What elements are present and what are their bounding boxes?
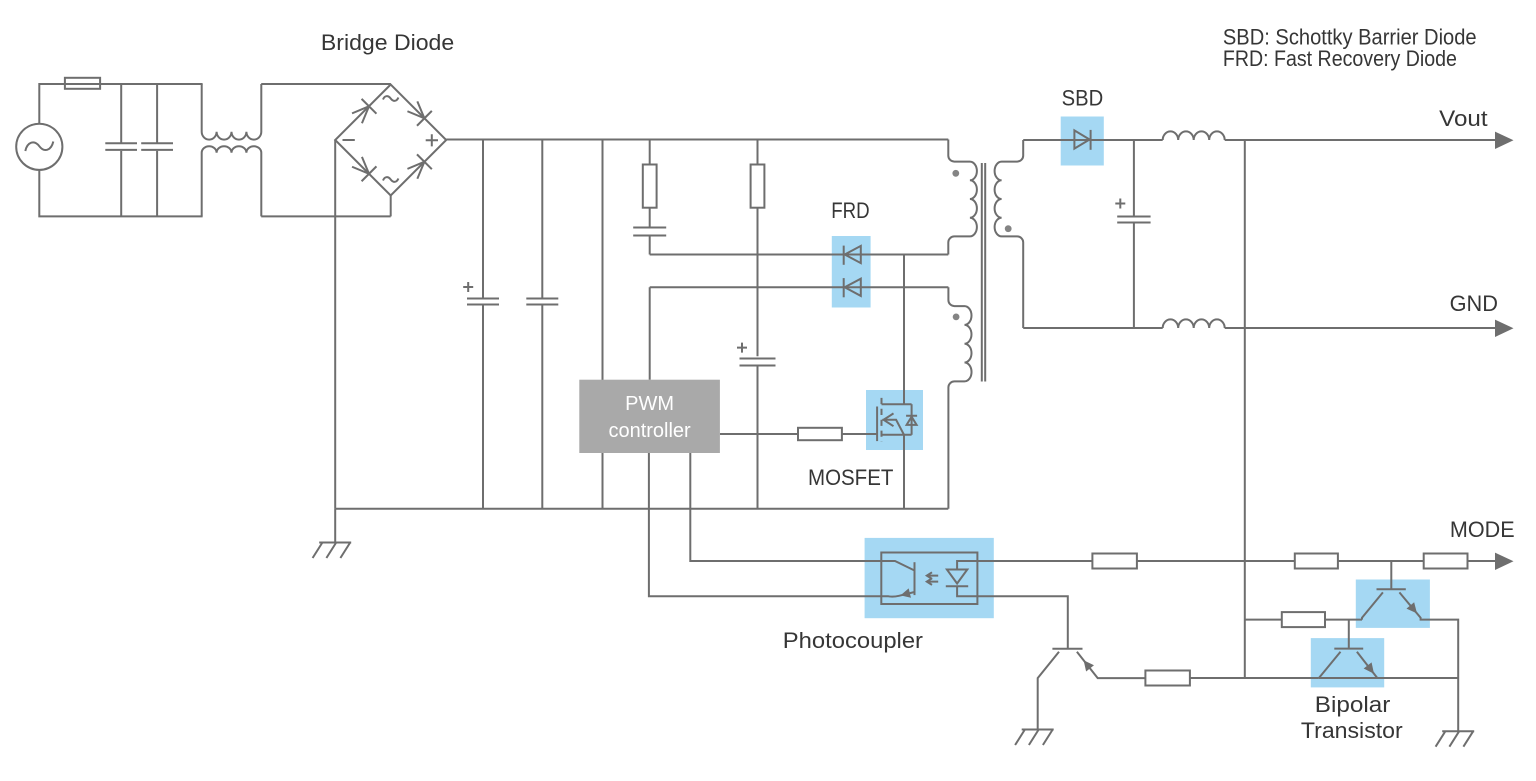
wire aux rail horizontal [650,286,949,288]
wire choke to bridge top [261,83,391,85]
wire MODE line from photocoupler [977,560,1092,562]
capacitor C3 bottom lead [649,236,651,255]
inductor L2 [1163,131,1225,140]
resistor R2 top lead [757,140,759,165]
transformer T1 primary winding [948,140,977,255]
wire R6 to MODE arrow [1468,560,1499,562]
capacitor C4 plates [740,359,776,366]
diode SBD bar [1090,130,1092,150]
FRD highlight box [832,236,871,308]
wire PWM to photocoupler anode-side [690,453,881,561]
resistor R3 [798,428,842,440]
MOSFET Q1 gate bar [876,407,878,442]
bipolar transistor Q3 highlight box [1311,638,1384,687]
resistor R5 [1295,554,1338,569]
MOSFET Q1 source stub [882,434,912,436]
transistor Q4 collector [1038,652,1059,730]
wire R7 to Q3 [1190,677,1319,679]
SBD highlight box [1061,117,1104,166]
wire GND rail [1023,327,1162,329]
svg-text:FRD: Fast Recovery Diode: FRD: Fast Recovery Diode [1223,46,1457,71]
svg-text:GND: GND [1450,291,1498,316]
capacitor C1 top lead [482,140,484,299]
capacitor C1 bottom lead [482,305,484,509]
wire MOSFET source to bottom bus [903,435,905,509]
capacitor C5 bottom lead [1133,223,1135,328]
svg-text:MOSFET: MOSFET [808,465,894,490]
wire DC bottom bus [335,508,948,510]
capacitor C2 top lead [541,140,543,299]
wire R8 to Q2 collector [1325,619,1362,621]
transistor Q4 emitter arrow [1080,657,1094,671]
wire inductor L2 to Vout [1225,139,1498,141]
wire R4 to R5 [1137,560,1295,562]
wire snubber rail to transformer [650,254,949,256]
photocoupler U2 light arrow upper [927,572,938,579]
capacitor C2 plates [526,299,558,305]
capacitor C4 plus sign [737,343,747,353]
capacitor C1 plates [467,299,499,305]
wire choke to bridge bottom [261,215,391,217]
svg-text:MODE: MODE [1450,517,1515,542]
capacitor C3 plates [633,228,666,236]
capacitor CX2 bottom lead [156,151,158,217]
diode FRD2 triangle [845,279,861,296]
transformer T1 core lines [982,163,985,382]
common-mode choke L1 bottom winding [202,146,262,216]
MOSFET Q1 body stub with arrow [883,413,905,434]
MODE arrow [1495,553,1514,570]
transistor Q2 base bar [1377,588,1406,590]
inductor L3 [1163,319,1225,328]
transformer T1 aux dot [953,314,960,321]
ground right [1436,731,1475,747]
capacitor C2 bottom lead [541,305,543,509]
resistor R3 gate lead left [720,433,798,435]
wire R5 to R6 [1338,560,1424,562]
diode FRD2 bar [843,278,845,297]
transformer section [948,140,1023,509]
fuse F1 [65,78,100,89]
transformer T1 primary dot [952,170,959,177]
transistor Q2 emitter arrow [1406,602,1420,616]
node ground stub primary [334,509,336,543]
transformer T1 secondary winding [995,140,1024,328]
AC source sine symbol [25,142,53,152]
transistor Q3 base lead [1348,620,1350,648]
capacitor C5 plates [1117,217,1150,223]
capacitor C4 bottom lead [757,366,759,509]
photocoupler U2 LED anode lead [957,561,977,570]
bridge diode arrow lower-right [405,154,432,181]
transformer T1 secondary dot [1005,225,1012,232]
wire MOSFET drain vertical [903,255,905,405]
GND arrow [1495,320,1514,337]
wire inductor L3 to GND [1225,327,1498,329]
wire aux rail to PWM vcc [649,287,651,379]
bridge diode arrow upper-left [350,99,377,126]
photocoupler U2 phototransistor collector [881,561,914,571]
svg-text:Bridge Diode: Bridge Diode [321,30,454,55]
capacitor C1 plus sign [463,282,473,292]
highlight boxes [832,117,1430,688]
resistor R7 [1145,671,1190,686]
wire Q3 emitter rail [1319,677,1458,679]
MOSFET Q1 body-diode branch [911,404,913,435]
bridge AC tilde top [383,96,398,101]
ground Q4 collector [1015,730,1054,746]
bridge diode D1 diamond [335,85,446,196]
transistor Q3 base bar [1334,648,1363,650]
PWM controller U1 box [579,380,720,453]
photocoupler U2 body box [881,553,977,605]
resistor R4 [1092,554,1137,569]
resistor R3 gate lead right [842,433,877,435]
photocoupler U2 LED cathode bar [946,585,968,587]
transistor Q2 base lead [1390,561,1392,589]
svg-text:FRD: FRD [831,198,869,223]
resistor R1 [643,165,657,208]
wire AC bottom bus [39,170,202,217]
photocoupler U2 phototransistor emitter arrow [899,588,911,600]
transistor Q2 emitter [1399,592,1458,731]
feedback section [881,553,1513,747]
capacitor CX2 top lead [156,84,158,143]
diode FRD1 triangle [845,246,861,263]
svg-text:PWM: PWM [625,393,674,415]
resistor R2 lower lead crossing to aux rail [757,208,759,357]
transistor Q2 collector [1362,592,1383,619]
wire feedback vertical from Vout [1244,140,1246,677]
capacitor C5 top lead [1133,140,1135,216]
bridge diode arrow lower-left [350,154,377,181]
photocoupler U2 phototransistor base bar [914,562,916,595]
photocoupler U2 LED cathode lead [957,586,977,596]
wire photocoupler cathode to Q4 base [977,596,1067,648]
transistor Q3 emitter [1357,652,1378,678]
diode SBD triangle [1074,130,1089,148]
primary section [335,140,948,597]
resistor R8 [1282,612,1325,627]
svg-text:SBD: SBD [1062,86,1104,111]
capacitor CX1 bottom lead [120,151,122,217]
bridge minus sign [343,139,355,141]
resistor R1 top lead [649,140,651,165]
transformer T1 aux winding [948,287,971,508]
Vout arrow [1495,132,1514,149]
wire Vout rail [1023,139,1162,141]
ground primary [313,543,352,559]
photocoupler U2 LED triangle [947,570,967,584]
wire vertical rail to PWM [602,140,604,509]
wire middle rail from feedback line [1245,619,1282,621]
svg-text:Photocoupler: Photocoupler [783,628,924,653]
diode FRD1 bar [843,246,845,265]
transistor Q4 base bar [1052,648,1082,650]
MOSFET Q1 drain stub [882,403,912,405]
wire bridge negative vertical down [334,140,336,509]
secondary section [1023,130,1513,677]
photocoupler U2 light arrow lower [927,578,938,585]
capacitor CX1 plates [105,143,137,150]
bridge diode arrow upper-right [405,99,432,126]
capacitor C5 plus sign [1115,199,1125,209]
photocoupler U2 phototransistor emitter [881,592,914,597]
wire bridge bottom corner to AC bus [390,196,392,217]
svg-text:Bipolar: Bipolar [1315,692,1391,717]
wire DC top bus [446,139,948,141]
MOSFET Q1 channel dashes [881,398,883,442]
MOSFET highlight box [866,390,923,450]
transistor Q3 emitter arrow [1364,662,1378,676]
svg-text:Vout: Vout [1439,106,1488,131]
bipolar transistor Q2 highlight box [1356,580,1430,628]
capacitor CX1 top lead [120,84,122,143]
photocoupler highlight box [865,538,994,618]
wire AC top bus [39,84,202,124]
svg-text:Transistor: Transistor [1301,718,1403,743]
AC input section [16,78,391,217]
capacitor CX2 plates [141,143,173,150]
resistor R6 [1424,554,1468,569]
common-mode choke L1 top winding [202,84,262,140]
MOSFET Q1 body diode [906,416,917,425]
bridge AC tilde bottom [383,177,398,182]
transistor Q4 emitter with arrow [1077,652,1146,678]
AC source V1 [16,124,62,170]
resistor R2 [751,165,765,208]
bridge plus sign [426,134,438,146]
transistor Q3 collector [1319,652,1341,678]
wire PWM to photocoupler cathode-side [649,453,881,596]
resistor R1 to C3 lead [649,208,651,228]
bridge section [313,85,447,559]
svg-text:controller: controller [608,420,691,442]
